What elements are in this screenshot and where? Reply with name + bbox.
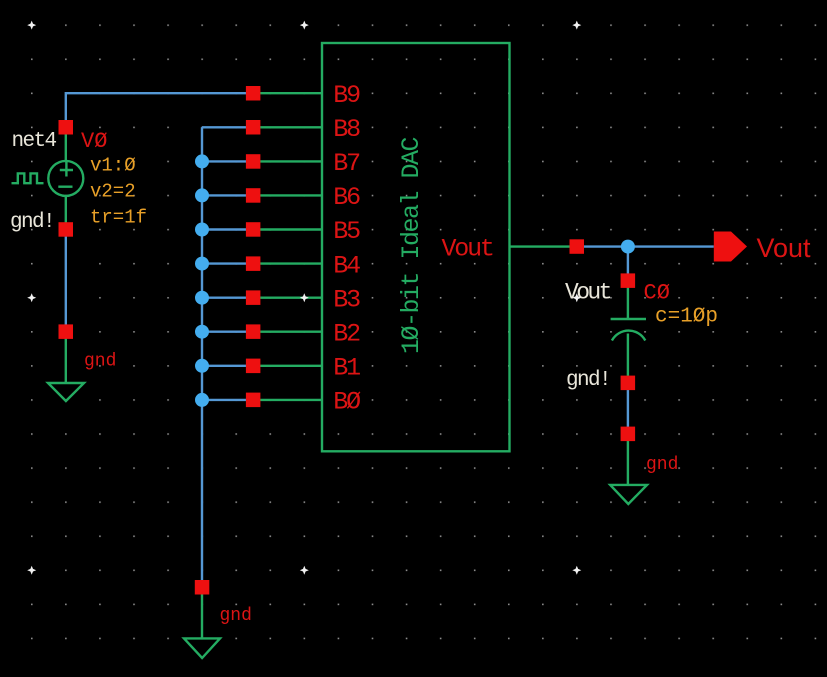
wire branch to DAC pin B8 bbox=[202, 126, 253, 128]
pin stub B5 of DAC bbox=[253, 228, 322, 230]
capacitor C0 top plate bbox=[611, 318, 646, 320]
svg-text:B5: B5 bbox=[333, 217, 360, 246]
svg-text:B4: B4 bbox=[333, 251, 360, 280]
svg-text:CØ: CØ bbox=[644, 280, 670, 305]
svg-text:Vout: Vout bbox=[757, 233, 812, 263]
svg-text:tr=1f: tr=1f bbox=[90, 207, 147, 229]
junction node B1 on bus bbox=[195, 359, 209, 373]
svg-text:B6: B6 bbox=[333, 183, 360, 212]
pin square B3 bbox=[246, 290, 261, 305]
ground symbol under V0 : triangle bbox=[48, 383, 84, 401]
pin stub B6 of DAC bbox=[253, 194, 322, 196]
wire branch to DAC pin B0 bbox=[202, 399, 253, 401]
pin square V0 plus terminal bbox=[59, 120, 74, 135]
wire branch to DAC pin B1 bbox=[202, 365, 253, 367]
ground symbol under C0 : leg bbox=[627, 434, 629, 485]
pin square DAC Vout output bbox=[570, 239, 585, 254]
pin stub B3 of DAC bbox=[253, 297, 322, 299]
pin square ground under V0 bbox=[59, 324, 74, 339]
junction node B6 on bus bbox=[195, 188, 209, 202]
voltage source V0 circle body bbox=[48, 161, 83, 196]
pin square B2 bbox=[246, 324, 261, 339]
pin stub B8 of DAC bbox=[253, 126, 322, 128]
ground symbol under V0 : leg bbox=[65, 332, 67, 383]
pin stub Vout of DAC bbox=[510, 245, 577, 247]
junction node B2 on bus bbox=[195, 325, 209, 339]
svg-text:B1: B1 bbox=[333, 354, 360, 383]
wire gnd! from V0 minus terminal down to ground pin bbox=[65, 230, 67, 332]
svg-text:1Ø-bit Ideal DAC: 1Ø-bit Ideal DAC bbox=[397, 137, 426, 354]
svg-text:VØ: VØ bbox=[81, 129, 107, 154]
wire branch to DAC pin B5 bbox=[202, 228, 253, 230]
junction node B7 on bus bbox=[195, 154, 209, 168]
pin stub B0 of DAC bbox=[253, 399, 322, 401]
pin square B5 bbox=[246, 222, 261, 237]
wire Vout junction down to capacitor C0 top bbox=[627, 247, 629, 281]
svg-text:Vout: Vout bbox=[565, 280, 611, 306]
op-amp U1 : 10-bit Ideal DAC instance body bbox=[322, 43, 510, 451]
pin square B1 bbox=[246, 359, 261, 374]
svg-text:v2=2: v2=2 bbox=[90, 181, 136, 203]
svg-text:B2: B2 bbox=[333, 319, 360, 348]
pin square V0 minus terminal bbox=[59, 222, 74, 237]
ground symbol under C0 : triangle bbox=[610, 485, 647, 504]
svg-text:c=1Øp: c=1Øp bbox=[655, 306, 718, 329]
ground symbol bottom center : leg bbox=[201, 587, 203, 638]
pin stub B2 of DAC bbox=[253, 331, 322, 333]
junction node B5 on bus bbox=[195, 223, 209, 237]
svg-text:B8: B8 bbox=[333, 115, 360, 144]
pin square B7 bbox=[246, 154, 261, 169]
wire bus vertical net joining B8-B0 down to ground bbox=[201, 127, 203, 587]
wire Vout from DAC output pin to output port bbox=[577, 245, 714, 247]
pin stub B4 of DAC bbox=[253, 262, 322, 264]
wire branch to DAC pin B3 bbox=[202, 297, 253, 299]
pin square B6 bbox=[246, 188, 261, 203]
svg-text:gnd: gnd bbox=[646, 455, 678, 475]
svg-text:gnd: gnd bbox=[220, 606, 252, 626]
capacitor C0 bottom leg bbox=[627, 334, 629, 383]
capacitor C0 curved bottom plate bbox=[612, 331, 645, 341]
junction node Vout at capacitor tap bbox=[621, 240, 635, 254]
pin stub B7 of DAC bbox=[253, 160, 322, 162]
svg-text:v1:Ø: v1:Ø bbox=[90, 155, 136, 177]
V0 pulse waveform glyph bbox=[12, 173, 44, 183]
pin square ground under C0 bbox=[621, 427, 636, 442]
output port Vout arrow symbol bbox=[714, 232, 747, 262]
wire branch to DAC pin B2 bbox=[202, 331, 253, 333]
V0 minus sign bbox=[58, 185, 72, 187]
pin square ground bottom center bbox=[195, 580, 210, 595]
svg-text:gnd!: gnd! bbox=[566, 369, 610, 392]
pin square C0 bottom bbox=[621, 376, 636, 391]
V0 bottom leg bbox=[65, 195, 67, 229]
svg-text:Vout: Vout bbox=[442, 235, 493, 264]
pin square B8 bbox=[246, 120, 261, 135]
pin square B0 bbox=[246, 393, 261, 408]
wire gnd! from C0 bottom to ground pin bbox=[627, 383, 629, 434]
ground symbol bottom center : triangle bbox=[184, 638, 220, 658]
svg-text:B9: B9 bbox=[333, 81, 360, 110]
pin square C0 top bbox=[621, 273, 636, 288]
svg-text:net4: net4 bbox=[12, 130, 57, 153]
wire branch to DAC pin B7 bbox=[202, 160, 253, 162]
wire branch to DAC pin B6 bbox=[202, 194, 253, 196]
V0 plus sign bbox=[60, 162, 73, 177]
V0 top leg bbox=[65, 127, 67, 161]
wire branch to DAC pin B4 bbox=[202, 262, 253, 264]
capacitor C0 top leg bbox=[627, 281, 629, 319]
junction node B3 on bus bbox=[195, 291, 209, 305]
wire net4: V0 plus terminal up and across to DAC pin B9 bbox=[66, 93, 253, 127]
junction node B0 on bus bbox=[195, 393, 209, 407]
pin square B9 bbox=[246, 86, 261, 101]
svg-text:gnd: gnd bbox=[84, 352, 116, 372]
pin square B4 bbox=[246, 256, 261, 271]
svg-text:B7: B7 bbox=[333, 149, 360, 178]
svg-text:BØ: BØ bbox=[333, 388, 361, 417]
svg-text:gnd!: gnd! bbox=[10, 211, 54, 234]
junction node B4 on bus bbox=[195, 257, 209, 271]
svg-text:B3: B3 bbox=[333, 285, 360, 314]
pin stub B1 of DAC bbox=[253, 365, 322, 367]
pin stub B9 of DAC bbox=[253, 92, 322, 94]
